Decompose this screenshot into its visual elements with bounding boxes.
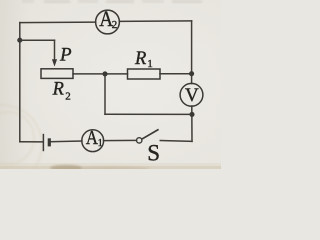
wire from ammeter A1 to switch (104, 139, 137, 141)
svg-text:1: 1 (98, 138, 103, 149)
node dot right rail top (R1 / voltmeter) (189, 71, 194, 76)
ammeter A1 (82, 127, 104, 152)
svg-text:P: P (59, 45, 72, 66)
battery long plate (42, 134, 44, 151)
wire voltmeter branch horizontal to right rail (105, 113, 192, 115)
svg-text:1: 1 (147, 58, 153, 70)
switch S (137, 129, 159, 143)
wire bottom from left corner to battery (20, 141, 43, 143)
wire top from ammeter A2 to right corner (119, 20, 191, 23)
resistor R1 (128, 69, 161, 79)
switch lever (142, 129, 159, 139)
ammeter A2 (96, 6, 120, 34)
node A junction dot (R2/R1/voltmeter branch) (102, 71, 107, 76)
potentiometer R2 (rheostat body) (41, 69, 73, 79)
wire from resistor R1 to right rail (160, 73, 192, 75)
voltmeter V (180, 83, 203, 106)
switch pivot circle (137, 138, 142, 143)
wire wiper feed vertical down to arrow (54, 40, 56, 60)
svg-text:S: S (147, 141, 160, 166)
battery cell (43, 134, 49, 151)
wire right rail upper (top corner down to node) (191, 21, 193, 84)
wire left rail vertical (19, 23, 21, 142)
wire from R2 right end to node A (73, 73, 105, 75)
svg-text:R: R (52, 79, 64, 99)
label R1 (134, 49, 153, 70)
wire from switch to bottom-right corner (160, 140, 192, 143)
wire from node A to resistor R1 (105, 73, 128, 75)
top edge ghost marks (22, 0, 202, 3)
svg-text:R: R (134, 49, 146, 69)
faint scan watermark arcs bottom-left (0, 105, 42, 185)
svg-text:2: 2 (112, 19, 118, 31)
label R2 (52, 79, 71, 102)
paper background (0, 0, 221, 169)
bottom edge shading (0, 163, 221, 171)
svg-text:A: A (86, 127, 98, 148)
wire top from left corner to ammeter A2 (20, 21, 96, 24)
node dot right rail bottom (voltmeter branch) (189, 112, 194, 117)
svg-text:2: 2 (65, 90, 71, 102)
battery short thick plate (48, 138, 51, 146)
wire right rail between voltmeter and bottom corner (191, 106, 193, 141)
wiper arrow of potentiometer P (52, 59, 57, 66)
node dot on left rail (wiper tap) (17, 38, 22, 43)
wire wiper feed horizontal from left rail (20, 39, 55, 41)
wire voltmeter branch vertical from node A (104, 74, 106, 114)
svg-text:V: V (185, 85, 199, 106)
wire from battery to ammeter A1 (49, 140, 82, 143)
